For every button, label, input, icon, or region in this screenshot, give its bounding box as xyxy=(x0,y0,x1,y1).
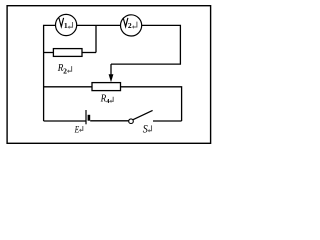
wire: R2 row left stub xyxy=(44,52,54,54)
paragraph mark after S xyxy=(149,125,152,130)
paragraph mark after V1 xyxy=(69,22,73,27)
paragraph mark after R4 xyxy=(110,97,113,102)
svg-text:2: 2 xyxy=(128,21,132,30)
svg-text:2: 2 xyxy=(63,66,67,75)
svg-text:1: 1 xyxy=(64,21,68,30)
wire: node vertical from top wire down to R2 row xyxy=(95,25,97,52)
svg-text:S: S xyxy=(143,121,148,135)
wire: bottom left segment to battery xyxy=(44,120,86,122)
switch S lever xyxy=(133,110,153,119)
wire: R4 row left from left vertical xyxy=(44,86,92,88)
border frame xyxy=(7,6,211,144)
wire: switch to bottom-right corner xyxy=(153,120,182,122)
switch S pivot circle xyxy=(129,119,134,124)
wire: top middle V1 to V2 xyxy=(77,24,121,26)
paragraph mark after E xyxy=(80,126,83,130)
wire: battery to switch xyxy=(90,120,129,122)
svg-text:E: E xyxy=(74,124,79,135)
rheostat R4 xyxy=(92,83,121,91)
voltmeter V2 xyxy=(121,15,142,36)
wire: left vertical + top-left segment to V1 xyxy=(44,25,56,121)
resistor R2 xyxy=(53,49,82,57)
wire: R2 right stub to node vertical xyxy=(82,52,96,54)
voltmeter V1 xyxy=(56,14,77,35)
paragraph mark after V2 xyxy=(133,22,137,27)
wire: V2 right, right-top vertical down to slider wire, slider wire to arrow xyxy=(111,25,180,64)
wire: R4 right to right-bottom vertical down to bottom wire xyxy=(121,87,182,121)
paragraph mark after R2 xyxy=(68,66,71,71)
battery E long plate xyxy=(85,110,87,124)
battery E short thick plate xyxy=(88,115,91,121)
rheostat slider arrow xyxy=(110,64,112,75)
